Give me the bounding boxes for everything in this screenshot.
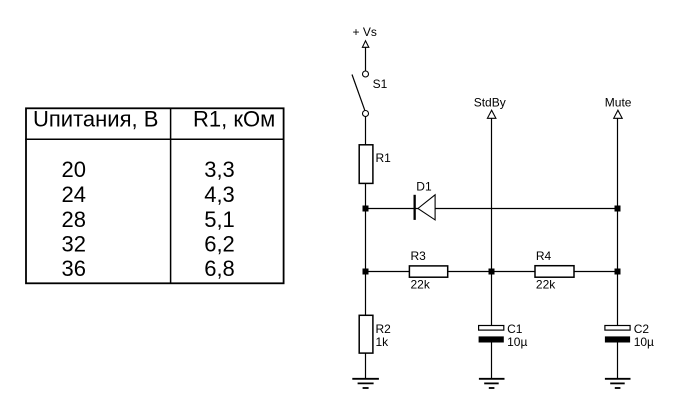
svg-text:S1: S1 (373, 77, 388, 91)
svg-text:StdBy: StdBy (474, 95, 506, 109)
svg-text:24: 24 (61, 182, 85, 207)
svg-text:R1: R1 (376, 151, 392, 165)
svg-text:4,3: 4,3 (204, 182, 235, 207)
svg-text:R1, кОм: R1, кОм (193, 107, 275, 132)
svg-text:6,2: 6,2 (204, 232, 235, 257)
svg-text:20: 20 (61, 157, 85, 182)
svg-text:R2: R2 (376, 322, 392, 336)
svg-text:32: 32 (61, 232, 85, 257)
svg-text:R4: R4 (536, 249, 552, 263)
svg-text:28: 28 (61, 207, 85, 232)
svg-text:C1: C1 (507, 322, 523, 336)
svg-text:+ Vs: + Vs (353, 25, 377, 39)
svg-text:22k: 22k (411, 278, 431, 292)
svg-text:36: 36 (61, 256, 85, 281)
svg-text:R3: R3 (411, 249, 427, 263)
svg-text:3,3: 3,3 (204, 157, 235, 182)
svg-text:Uпитания, В: Uпитания, В (33, 107, 158, 132)
svg-text:22k: 22k (536, 278, 556, 292)
svg-text:C2: C2 (634, 322, 650, 336)
svg-text:D1: D1 (416, 180, 432, 194)
svg-text:10µ: 10µ (507, 335, 527, 349)
svg-text:6,8: 6,8 (204, 256, 235, 281)
svg-text:10µ: 10µ (634, 335, 654, 349)
svg-text:1k: 1k (376, 335, 390, 349)
svg-text:Mute: Mute (605, 95, 632, 109)
svg-text:5,1: 5,1 (204, 207, 235, 232)
